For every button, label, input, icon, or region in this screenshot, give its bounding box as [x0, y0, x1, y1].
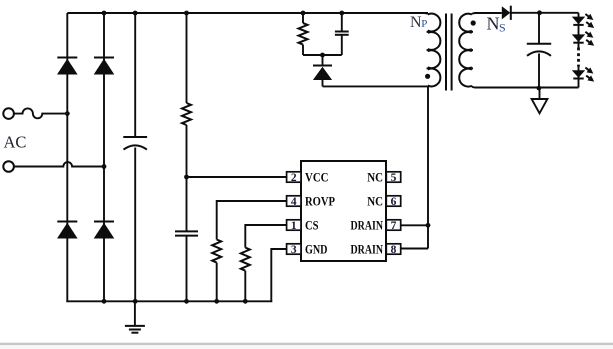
wire DRAIN pin 8: [401, 248, 428, 250]
op-amp U1 body (controller IC): [301, 161, 386, 261]
svg-text:DRAIN: DRAIN: [351, 243, 384, 257]
node bottom rail / bulk cap: [133, 299, 138, 304]
wire clamp bottom: [303, 54, 342, 56]
svg-text:DRAIN: DRAIN: [351, 219, 384, 233]
wire secondary top to diode: [475, 12, 502, 14]
pin 4 box: [287, 196, 301, 206]
diode D1 (bridge top-left): [57, 57, 77, 59]
node clamp / diode: [320, 53, 325, 58]
wire VCC to pin 2: [187, 176, 287, 178]
wire ROVP pin 4: [217, 201, 287, 240]
transformer T1 primary winding Np: [428, 14, 441, 87]
node top rail / VCC resistor: [184, 11, 189, 16]
LED D7: [572, 17, 585, 25]
wire DRAIN pin 7: [401, 224, 428, 226]
fuse F1: [14, 108, 67, 118]
node AC top to bridge junction: [65, 111, 70, 116]
svg-text:ROVP: ROVP: [305, 195, 335, 209]
pin 3 box: [287, 244, 301, 254]
wire bridge column 1 vertical: [66, 13, 68, 301]
resistor R1 (VCC startup): [182, 103, 191, 125]
wire LED string top: [578, 13, 580, 48]
wire bottom rail (GND bus): [66, 300, 272, 302]
node snubber C top: [339, 11, 344, 16]
svg-text:P: P: [421, 18, 427, 30]
capacitor C4 (output electrolytic): [538, 13, 540, 44]
diode D3 (bridge bottom-left): [57, 221, 77, 223]
wire VCC column top: [186, 13, 188, 103]
ground output (signal ground): [539, 88, 541, 99]
diode D4 (bridge bottom-right): [94, 221, 114, 223]
node output positive: [537, 10, 542, 15]
node output negative: [537, 86, 542, 91]
wire R3 to ground rail: [216, 263, 218, 302]
pin 2 box: [287, 172, 301, 182]
resistor R3 (OVP): [212, 240, 221, 263]
svg-text:4: 4: [291, 196, 297, 208]
svg-text:1: 1: [291, 220, 297, 232]
node top rail / bulk cap: [133, 11, 138, 16]
svg-text:N: N: [410, 14, 422, 31]
svg-text:GND: GND: [305, 243, 328, 257]
svg-text:7: 7: [391, 220, 397, 232]
wire secondary bottom rail: [475, 87, 579, 89]
wire clamp to drain node: [323, 85, 429, 87]
node top rail / column 2: [102, 11, 107, 16]
wire bulk cap column vertical bottom: [134, 148, 136, 302]
svg-text:2: 2: [291, 172, 297, 184]
pin 1 box: [287, 220, 301, 230]
node AC bottom to bridge junction: [102, 164, 107, 169]
svg-text:5: 5: [391, 172, 397, 184]
node bottom rail / VCC cap: [184, 299, 189, 304]
diode D2 (bridge top-right): [94, 57, 114, 59]
wire CS pin 1: [245, 225, 286, 248]
pin 7 box: [386, 220, 400, 230]
diode D5 (clamp): [322, 55, 324, 66]
wire bridge column 2 vertical: [103, 13, 105, 301]
wire VCC column bottom: [186, 236, 188, 302]
resistor R2 (clamp): [302, 13, 304, 23]
wire diode to output node: [511, 12, 579, 14]
page footer rule: [0, 343, 613, 346]
transformer core: [445, 14, 447, 91]
terminal AC neutral input (bottom): [3, 161, 14, 172]
svg-text:AC: AC: [4, 133, 27, 152]
pin 6 box: [386, 196, 400, 206]
LED D9 emission arrows: [585, 68, 589, 71]
wire LED string bottom: [578, 67, 580, 88]
wire VCC column middle: [186, 125, 188, 231]
svg-text:S: S: [499, 21, 506, 35]
LED D7 emission arrows: [585, 14, 589, 17]
pin 5 box: [386, 172, 400, 182]
svg-text:8: 8: [391, 244, 397, 256]
capacitor C2 (VCC): [175, 230, 198, 232]
wire GND pin 3: [271, 249, 286, 301]
svg-text:6: 6: [391, 196, 397, 208]
node snubber R top: [301, 11, 306, 16]
transformer T1 secondary winding Ns: [459, 14, 472, 87]
terminal AC line input (top): [3, 108, 14, 119]
LED D8: [572, 34, 585, 42]
node primary phase dot: [425, 74, 430, 79]
svg-text:3: 3: [291, 244, 297, 256]
LED D8 emission arrows: [585, 32, 589, 35]
capacitor C1 (bulk electrolytic): [123, 136, 147, 138]
wire R4 to ground rail: [244, 271, 246, 302]
node secondary phase dot: [471, 20, 476, 25]
node bottom rail / R3: [214, 299, 219, 304]
capacitor C3 (clamp): [341, 13, 343, 32]
ground earth symbol: [134, 301, 136, 326]
svg-text:NC: NC: [367, 171, 383, 185]
diode D6 (output rectifier): [502, 6, 511, 19]
svg-text:VCC: VCC: [305, 171, 329, 185]
wire top rail (+) from bridge to transformer primary: [67, 12, 428, 14]
wire LED string dotted (more LEDs): [577, 48, 580, 67]
svg-text:CS: CS: [305, 219, 319, 233]
wire bulk cap column vertical top: [134, 13, 136, 137]
node bottom rail / R4: [243, 299, 248, 304]
resistor R4 (current sense): [241, 248, 250, 271]
LED D9: [572, 70, 585, 78]
svg-text:N: N: [487, 14, 500, 34]
wire AC bottom with hop over column 1: [14, 162, 104, 166]
wire primary bottom to DRAIN pins: [427, 86, 429, 248]
node bottom rail / column 2: [102, 299, 107, 304]
svg-text:NC: NC: [367, 195, 383, 209]
pin 8 box: [386, 244, 400, 254]
node VCC takeoff: [184, 175, 189, 180]
node drain junction: [426, 223, 431, 228]
